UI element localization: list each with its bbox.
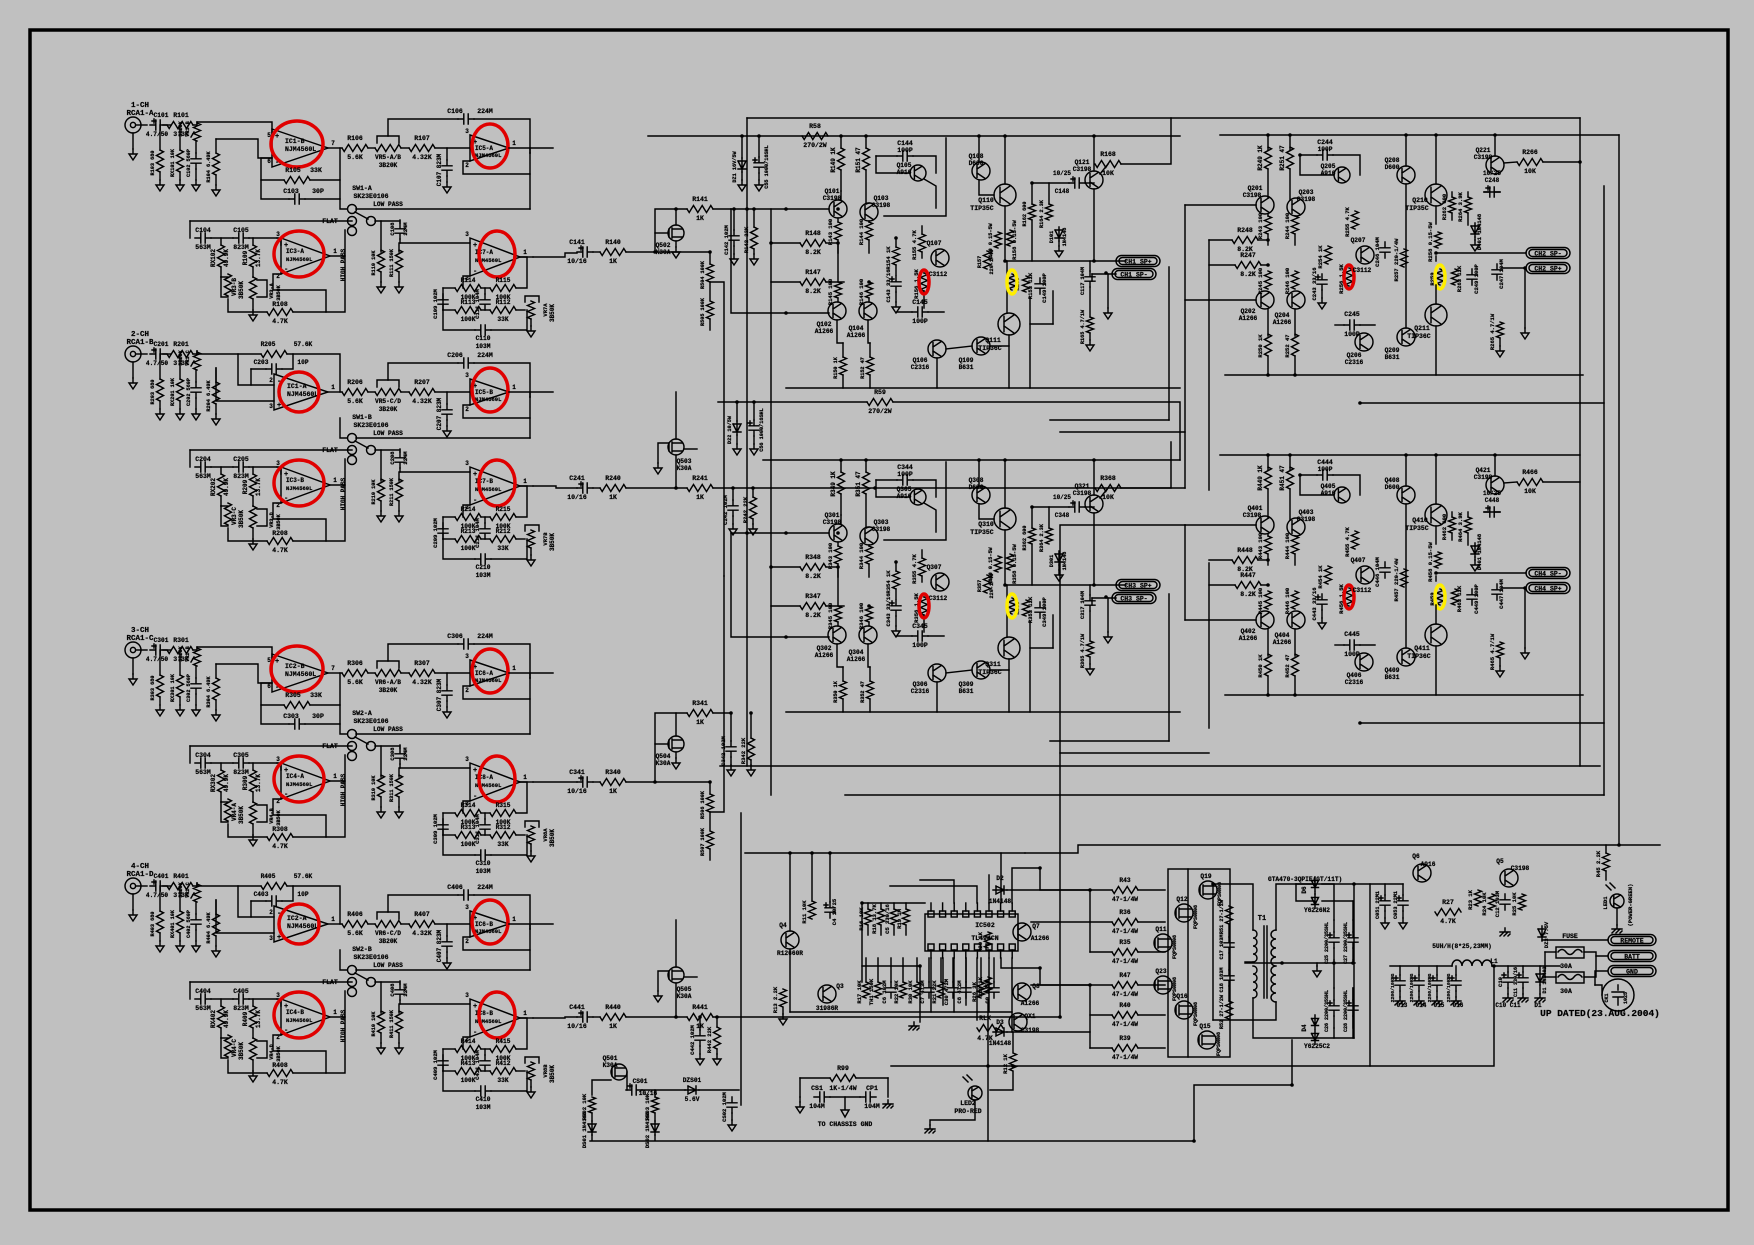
svg-text:VR4-D: VR4-D (269, 1044, 275, 1060)
svg-text:C448: C448 (1485, 497, 1500, 504)
resistor R507 100K (709, 812, 711, 830)
svg-text:C3198: C3198 (1073, 490, 1092, 497)
resistor R201 3.3K (167, 351, 193, 358)
svg-text:GTA470-3QPIE(GT/11T): GTA470-3QPIE(GT/11T) (1268, 876, 1342, 883)
resistor R354 1K (893, 571, 900, 589)
capacitor C204 563M (195, 462, 211, 472)
svg-text:8.2K: 8.2K (805, 612, 821, 619)
resistor R211 150K (398, 472, 400, 481)
svg-text:HIGH PASS: HIGH PASS (340, 773, 347, 806)
svg-text:VR5-A/B: VR5-A/B (375, 154, 401, 161)
svg-text:10K: 10K (1524, 168, 1536, 175)
wire (1085, 182, 1094, 184)
wire (190, 981, 352, 983)
resistor R30 10K (914, 982, 921, 998)
svg-text:R309: R309 (242, 775, 249, 790)
transistor Q404 A1266 (1287, 611, 1305, 629)
resistor R340 1K (600, 779, 626, 786)
svg-text:C207 823M: C207 823M (436, 397, 443, 430)
ground (132, 133, 134, 149)
resistor R312 33K (481, 834, 490, 836)
resistor R360 0.15-5W (995, 556, 1002, 572)
pin 12 (974, 944, 980, 950)
svg-text:Y6225C2: Y6225C2 (1304, 1043, 1330, 1050)
transistor Q401 C3198 (1256, 516, 1274, 534)
svg-text:IC2-B: IC2-B (285, 663, 305, 670)
svg-text:C117 104M: C117 104M (1080, 267, 1086, 295)
svg-text:R506 100K: R506 100K (700, 790, 706, 819)
capacitor C247 104M (1492, 264, 1502, 280)
transistor Q501 K30A (611, 1064, 627, 1080)
resistor R444 100 (1292, 536, 1299, 554)
wire (1048, 507, 1050, 528)
resistor R245 100 (1265, 271, 1272, 289)
svg-text:100P: 100P (897, 147, 913, 154)
potentiometer VR4-A 3B50K (225, 799, 232, 821)
node REMOTE (1608, 935, 1656, 946)
capacitor C343 33/16 (891, 600, 901, 616)
capacitor C243 33/16 (1317, 274, 1327, 290)
svg-text:Q307: Q307 (927, 564, 942, 571)
svg-text:IC6-A: IC6-A (475, 670, 493, 677)
capacitor C28 2200/35SHL (1348, 1000, 1358, 1016)
resistor R350 1K (840, 681, 847, 699)
capacitor C5 330/16 (891, 909, 898, 925)
svg-text:FQPS0N08: FQPS0N08 (1193, 1002, 1199, 1026)
wire (920, 880, 954, 903)
ground (1107, 274, 1109, 308)
wire bus bottom 2 (740, 813, 742, 1105)
svg-text:SK23E0106: SK23E0106 (353, 422, 388, 429)
resistor R251 47 (1289, 135, 1291, 150)
resistor R266 10K (1517, 159, 1543, 166)
svg-text:224M: 224M (477, 108, 493, 115)
pin 1 (928, 911, 934, 917)
svg-text:224M: 224M (402, 222, 409, 236)
ground (1107, 598, 1109, 632)
svg-text:HIGH PASS: HIGH PASS (340, 248, 347, 281)
svg-text:R454 1K: R454 1K (1317, 565, 1324, 589)
capacitor C202 560P (195, 370, 197, 382)
capacitor C210 103M (443, 539, 475, 559)
resistor RX302 49.9K (220, 763, 222, 770)
wire (592, 1080, 611, 1095)
wire (1187, 869, 1189, 1057)
svg-text:TIP35C: TIP35C (970, 205, 994, 212)
svg-text:R107: R107 (414, 135, 430, 142)
svg-text:Q311: Q311 (985, 661, 1001, 668)
svg-text:A1266: A1266 (1031, 935, 1050, 942)
svg-text:A916: A916 (1321, 490, 1336, 497)
svg-text:R168: R168 (1100, 151, 1116, 158)
svg-text:3B20K: 3B20K (379, 687, 398, 694)
wire (1100, 488, 1108, 498)
node CH1 SP+ (1116, 256, 1160, 267)
svg-text:C3198: C3198 (872, 526, 891, 533)
svg-text:A1266: A1266 (815, 328, 834, 335)
resistor R307 4.32K (401, 672, 409, 674)
wire (1322, 900, 1353, 902)
svg-text:VR4-B: VR4-B (269, 808, 275, 824)
svg-text:Q3: Q3 (836, 983, 844, 990)
svg-text:100K: 100K (461, 1077, 476, 1084)
svg-text:NJM4560L: NJM4560L (287, 391, 318, 398)
svg-text:R406: R406 (347, 911, 363, 918)
op-amp IC4-A NJM4560L (277, 763, 281, 770)
svg-text:R457 220-1/4W: R457 220-1/4W (1393, 558, 1400, 602)
svg-text:R210 10K: R210 10K (371, 479, 377, 505)
wire (876, 156, 910, 173)
svg-text:R215: R215 (496, 506, 511, 513)
svg-text:100P: 100P (1344, 651, 1360, 658)
wire bus mid horizontal (720, 765, 1600, 767)
svg-text:R403 680: R403 680 (150, 912, 156, 937)
resistor R248 8.2K (1232, 237, 1258, 244)
svg-text:A1266: A1266 (1239, 315, 1258, 322)
resistor R344 100 (868, 545, 870, 546)
wire (520, 256, 533, 258)
svg-text:R357: R357 (977, 580, 983, 592)
capacitor C149 100P (1035, 278, 1045, 294)
capacitor C12 103M (1500, 894, 1510, 910)
svg-text:33K: 33K (310, 167, 322, 174)
svg-text:R25 10K: R25 10K (1511, 892, 1518, 916)
svg-text:K30A: K30A (677, 993, 692, 1000)
ground (1058, 565, 1060, 570)
svg-text:Q202: Q202 (1241, 308, 1256, 315)
capacitor C13 2200/10KMG (1399, 966, 1401, 975)
capacitor C104 563M (195, 233, 211, 243)
diode DS01 1N4148 (588, 1121, 596, 1135)
svg-text:VR6-C/D: VR6-C/D (375, 930, 401, 937)
resistor R353 12K (1023, 600, 1030, 616)
wire (1007, 1031, 1090, 1033)
svg-text:L1: L1 (1490, 958, 1498, 965)
capacitor C107 823M (446, 148, 448, 160)
wire (330, 459, 345, 485)
wire (533, 486, 577, 488)
svg-text:-: - (473, 1029, 477, 1037)
wire (1031, 544, 1033, 585)
svg-text:R246 100: R246 100 (1284, 268, 1291, 294)
svg-text:R450 1K: R450 1K (1257, 654, 1264, 678)
svg-text:C245: C245 (1344, 311, 1360, 318)
capacitor C209 102M (438, 523, 448, 539)
svg-text:4.32K: 4.32K (412, 679, 432, 686)
svg-text:R241: R241 (692, 475, 708, 482)
svg-text:R313: R313 (461, 824, 476, 831)
svg-text:R154 1K: R154 1K (885, 246, 892, 270)
svg-text:R47: R47 (1119, 972, 1130, 979)
svg-text:R441: R441 (692, 1004, 708, 1011)
svg-text:TIP35C: TIP35C (1405, 205, 1429, 212)
svg-text:10K: 10K (1102, 170, 1114, 177)
capacitor C55 1000/16SHL (754, 157, 764, 173)
wire (238, 354, 274, 385)
svg-text:5.6K: 5.6K (347, 679, 363, 686)
wire (1584, 952, 1608, 956)
wire (654, 1090, 656, 1097)
svg-text:CH2 SP+: CH2 SP+ (1534, 266, 1561, 273)
RCA jack RCA1-C (125, 642, 141, 658)
svg-text:R143 100: R143 100 (827, 219, 834, 245)
capacitor C410 103M (443, 1071, 475, 1091)
svg-text:C442 102M: C442 102M (689, 1024, 696, 1054)
svg-text:1N4148: 1N4148 (989, 1040, 1012, 1047)
svg-text:+: + (275, 658, 279, 666)
svg-text:4.32K: 4.32K (412, 154, 432, 161)
IC IC502 TL494CN (925, 914, 1018, 951)
svg-text:RX402: RX402 (210, 1010, 217, 1028)
transistor Q421 C3198 (1486, 476, 1504, 494)
wire (400, 471, 470, 473)
capacitor C408 224M (399, 981, 401, 984)
wire (654, 1113, 656, 1121)
wire (375, 981, 400, 983)
svg-text:R207: R207 (414, 379, 430, 386)
svg-text:104M: 104M (864, 1103, 880, 1110)
svg-text:C447 104M: C447 104M (1498, 578, 1505, 608)
transistor Q108 D600 (972, 162, 990, 180)
svg-text:3B20K: 3B20K (178, 645, 184, 661)
svg-text:D600: D600 (1385, 164, 1400, 171)
wire (1040, 968, 1090, 985)
svg-text:LOW PASS: LOW PASS (373, 726, 403, 733)
svg-text:R105: R105 (285, 167, 301, 174)
wire (375, 449, 400, 451)
wire LOW PASS line (356, 437, 530, 439)
svg-text:R147: R147 (805, 269, 821, 276)
svg-text:Q403: Q403 (1299, 509, 1314, 516)
capacitor C448 10/25 (1484, 507, 1500, 517)
transistor Q306 C2316 (928, 664, 946, 682)
transistor Q406 C2316 (1355, 653, 1373, 671)
svg-text:C104: C104 (195, 227, 211, 234)
highlight ellipse (472, 368, 508, 412)
svg-text:R22 10K: R22 10K (893, 980, 900, 1004)
resistor RX402 49.9K (220, 999, 222, 1006)
resistor R103 680 (159, 125, 161, 150)
svg-text:3: 3 (269, 403, 273, 410)
svg-text:R401: R401 (173, 873, 189, 880)
svg-text:R204 6.49K: R204 6.49K (206, 380, 212, 412)
svg-text:R347: R347 (805, 593, 821, 600)
svg-text:SW1-A: SW1-A (352, 185, 372, 192)
resistor R26 3K (978, 982, 985, 998)
svg-text:TIP36C: TIP36C (978, 345, 1002, 352)
ground (1474, 557, 1476, 560)
op-amp IC3-B NJM4560L (277, 467, 281, 474)
resistor R409 13.7K (252, 999, 254, 1006)
resistor R355 4.7K (919, 558, 926, 576)
svg-text:IC5-A: IC5-A (475, 145, 493, 152)
svg-text:R24 10K: R24 10K (1481, 892, 1488, 916)
svg-text:R308: R308 (272, 826, 288, 833)
svg-text:Q105: Q105 (897, 162, 912, 169)
wire (1040, 868, 1090, 890)
svg-text:Q502: Q502 (656, 242, 671, 249)
svg-text:C309 102M: C309 102M (432, 813, 439, 843)
capacitor C26 2200/35SHL (1329, 1000, 1339, 1016)
pin 5 (974, 911, 980, 917)
svg-text:C349 100P: C349 100P (1041, 596, 1048, 626)
wire (330, 991, 345, 1017)
svg-text:B631: B631 (1385, 354, 1400, 361)
wire (930, 958, 932, 1012)
junction dots (839, 134, 843, 138)
svg-text:A1266: A1266 (1021, 1000, 1040, 1007)
svg-text:3B50K: 3B50K (238, 806, 245, 824)
resistor R155 4.7K (919, 234, 926, 252)
highlight ellipse (479, 992, 515, 1038)
pin 15 (940, 944, 946, 950)
svg-text:R465 4.7/1W: R465 4.7/1W (1489, 633, 1496, 670)
resistor R145 100 (835, 282, 842, 298)
svg-text:C148: C148 (1055, 188, 1070, 195)
wire (988, 958, 990, 1012)
resistor R448 8.2K (1232, 557, 1258, 564)
resistor R415 100K (481, 1048, 490, 1050)
resistor R247 8.2K (1235, 262, 1261, 269)
resistor R141 1K (687, 206, 713, 213)
wire (1333, 963, 1335, 988)
ground (1474, 237, 1476, 240)
svg-text:PRO-RED: PRO-RED (954, 1108, 981, 1115)
svg-text:TH1 150K: TH1 150K (868, 978, 875, 1005)
wire (1360, 722, 1604, 724)
svg-text:C444: C444 (1317, 459, 1333, 466)
wire (887, 1078, 889, 1097)
svg-text:Q205: Q205 (1321, 163, 1336, 170)
svg-text:3B50K: 3B50K (238, 281, 245, 299)
svg-text:NJM4560L: NJM4560L (286, 485, 313, 492)
svg-text:D301: D301 (1049, 555, 1055, 567)
transistor Q410 TIP35C (1425, 504, 1447, 526)
wire (340, 724, 347, 734)
wire (626, 713, 687, 782)
capacitor C447 104M (1492, 584, 1502, 600)
svg-text:R141: R141 (692, 196, 708, 203)
resistor R45 2.2K (1603, 853, 1610, 871)
highlight ellipse (479, 460, 515, 506)
capacitor C449 100P (1467, 589, 1477, 605)
capacitor C201 4.7/50 (150, 349, 166, 359)
svg-text:823M: 823M (233, 1005, 249, 1012)
svg-text:R111 150K: R111 150K (389, 248, 395, 277)
svg-text:NJM4560L: NJM4560L (286, 1017, 313, 1024)
svg-text:Q421: Q421 (1476, 467, 1491, 474)
svg-text:Q303: Q303 (874, 519, 889, 526)
svg-text:C3198: C3198 (1021, 1027, 1040, 1034)
capacitor CS02 102M (727, 1097, 737, 1113)
resistor R362 600 (1029, 528, 1036, 544)
svg-text:2: 2 (465, 406, 469, 413)
wire (1085, 506, 1094, 508)
svg-text:Q402: Q402 (1241, 628, 1256, 635)
svg-text:13.7K: 13.7K (255, 249, 262, 267)
svg-text:C3198: C3198 (823, 195, 842, 202)
wire (375, 220, 400, 222)
resistor R315 100K (481, 812, 490, 814)
capacitor C103 30P (305, 180, 340, 199)
svg-text:C317 104M: C317 104M (1080, 591, 1086, 619)
svg-text:3B50K: 3B50K (549, 533, 556, 551)
wire (1354, 883, 1403, 885)
wire (593, 1016, 600, 1018)
junction dots global (740, 134, 744, 138)
svg-text:R344 100: R344 100 (858, 543, 865, 569)
wire (1504, 162, 1517, 163)
svg-text:D22 10/5W: D22 10/5W (727, 415, 733, 444)
wire (1220, 134, 1619, 136)
svg-text:D600: D600 (969, 160, 984, 167)
svg-text:VR2-B: VR2-B (185, 646, 191, 662)
wire (340, 950, 347, 970)
svg-text:-: - (473, 497, 477, 505)
resistor R401 3.3K (167, 883, 193, 890)
highlight ellipse red (919, 270, 929, 294)
svg-text:C246 104M: C246 104M (1374, 236, 1381, 266)
resistor R19 1M (903, 909, 910, 925)
diode D6 Y6226N2 (1312, 877, 1319, 891)
wire (713, 712, 731, 714)
resistor R259 0.15-5W (1437, 269, 1444, 285)
resistor R43 47-1/4W (1112, 887, 1138, 894)
potentiometer VR5-C/D 3B20K (368, 391, 375, 393)
resistor R308 4.7K (293, 781, 345, 837)
svg-text:IC1-A: IC1-A (287, 383, 307, 390)
wire (1100, 164, 1108, 174)
resistor R440 1K (600, 1014, 626, 1021)
svg-text:4.7/50: 4.7/50 (146, 360, 169, 367)
svg-text:1N4148: 1N4148 (1062, 552, 1068, 571)
svg-text:D3: D3 (996, 1019, 1004, 1026)
capacitor C145 100P (897, 311, 912, 313)
potentiometer VR2-B 3B20K (194, 648, 201, 666)
wire (713, 208, 731, 210)
svg-text:R109: R109 (242, 250, 249, 265)
svg-text:C243 33/16: C243 33/16 (1311, 267, 1318, 300)
resistor R463 12K (1452, 589, 1459, 605)
svg-text:Q109: Q109 (959, 357, 974, 364)
op-amp IC8-B NJM4560L (470, 999, 520, 1037)
svg-text:R455 4.7K: R455 4.7K (1344, 526, 1351, 556)
svg-text:R16 10K: R16 10K (858, 907, 865, 931)
svg-text:VR8B: VR8B (542, 1064, 549, 1078)
svg-text:R108: R108 (272, 301, 288, 308)
wire (710, 576, 724, 812)
svg-text:3: 3 (276, 992, 280, 999)
svg-text:3: 3 (465, 653, 469, 660)
svg-text:LED1: LED1 (1602, 896, 1609, 910)
resistor R452 47 (1294, 629, 1296, 656)
wire (642, 1089, 685, 1091)
resistor R109 13.7K (252, 238, 254, 245)
capacitor C304 563M (195, 758, 211, 768)
diode D401 1N4148 (1471, 543, 1479, 557)
svg-text:REMOTE: REMOTE (1620, 938, 1644, 945)
transistor Q103 C3198 (860, 203, 878, 221)
transistor Q308 D600 (972, 486, 990, 504)
svg-text:Q201: Q201 (1248, 185, 1263, 192)
svg-text:1: 1 (523, 249, 527, 256)
svg-text:R164 2.3K: R164 2.3K (1039, 199, 1045, 228)
resistor R29 1K (985, 977, 992, 993)
svg-text:6: 6 (267, 683, 271, 690)
power ground (1612, 925, 1622, 933)
potentiometer VR8B 3B50K (516, 1070, 525, 1072)
resistor R306 5.6K (342, 670, 368, 677)
